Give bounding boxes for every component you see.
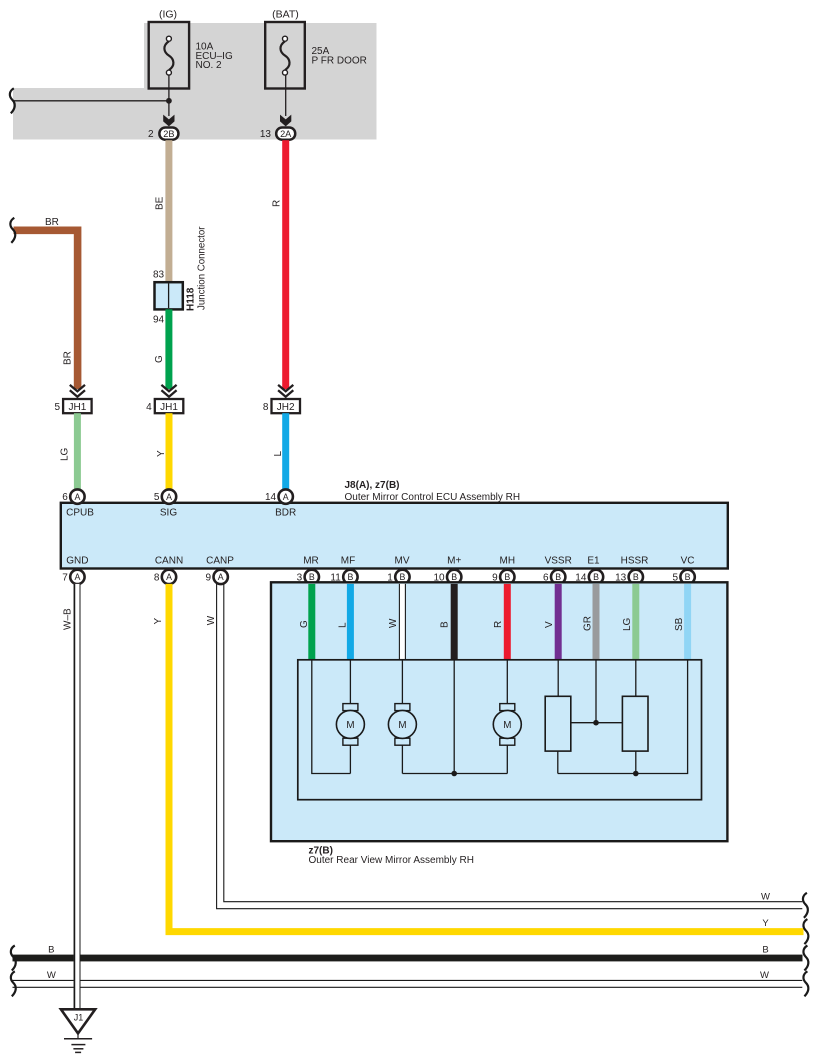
fuse 25A P FR DOOR F2 bbox=[265, 22, 305, 89]
svg-text:5: 5 bbox=[54, 402, 60, 413]
svg-text:R: R bbox=[271, 200, 282, 207]
svg-text:BR: BR bbox=[63, 351, 74, 365]
svg-text:A: A bbox=[218, 572, 224, 582]
svg-text:W: W bbox=[388, 618, 399, 628]
fuse block ground plane bbox=[13, 23, 377, 140]
wire G inner bbox=[312, 661, 351, 774]
svg-text:GR: GR bbox=[582, 616, 593, 631]
svg-text:9: 9 bbox=[206, 573, 212, 584]
fuse 10A ECU-IG F1 bbox=[149, 22, 189, 89]
svg-text:B: B bbox=[504, 572, 510, 582]
pin circle 1 B bbox=[387, 570, 409, 584]
pin circle 9 A bbox=[206, 570, 228, 584]
svg-text:G: G bbox=[154, 355, 165, 363]
mirror assembly box z7(B) bbox=[271, 582, 727, 841]
wire Y bbox=[166, 413, 173, 489]
svg-text:13: 13 bbox=[260, 129, 272, 140]
pin circle 6 B bbox=[543, 570, 565, 584]
actuator rect 1 bbox=[545, 696, 571, 751]
pin circle 14 B bbox=[575, 570, 603, 584]
svg-text:M: M bbox=[503, 720, 511, 731]
wire fuse BAT to connector 2A bbox=[285, 75, 287, 116]
wire SB into assembly bbox=[684, 584, 691, 661]
svg-text:HSSR: HSSR bbox=[621, 556, 649, 567]
wire L inner bbox=[349, 661, 351, 704]
svg-text:2A: 2A bbox=[280, 129, 292, 139]
svg-text:JH1: JH1 bbox=[160, 402, 178, 413]
svg-text:6: 6 bbox=[62, 492, 68, 503]
svg-text:BR: BR bbox=[45, 217, 59, 228]
svg-text:Y: Y bbox=[156, 450, 167, 457]
svg-text:B: B bbox=[555, 572, 561, 582]
junction connector H118 bbox=[155, 282, 183, 309]
wire W bottom horizontal bbox=[13, 980, 803, 987]
wire SB inner bbox=[558, 661, 688, 774]
svg-text:GND: GND bbox=[66, 556, 88, 567]
svg-text:83: 83 bbox=[153, 270, 165, 281]
svg-text:B: B bbox=[309, 572, 315, 582]
wire LG into assembly bbox=[632, 584, 639, 661]
wire bus in fuse block bbox=[12, 100, 169, 102]
svg-text:M: M bbox=[398, 720, 406, 731]
svg-text:CANN: CANN bbox=[155, 556, 183, 567]
wire V into assembly bbox=[555, 584, 562, 661]
svg-text:A: A bbox=[166, 492, 172, 502]
connector JH2 bbox=[272, 399, 301, 413]
wire BE tan bbox=[165, 140, 172, 282]
break symbol W bottom left bbox=[11, 971, 16, 996]
wire B horizontal bbox=[13, 955, 803, 962]
connector oval 2B bbox=[159, 128, 178, 140]
wire GR into assembly bbox=[593, 584, 600, 661]
svg-text:W: W bbox=[47, 970, 56, 981]
svg-text:L: L bbox=[273, 451, 284, 457]
svg-text:Y: Y bbox=[153, 618, 164, 625]
svg-text:J1: J1 bbox=[74, 1013, 84, 1023]
svg-text:Y: Y bbox=[762, 918, 769, 929]
wire BR brown bbox=[14, 230, 78, 389]
wire V inner bbox=[557, 661, 559, 697]
pin circle 11 B bbox=[330, 570, 357, 584]
svg-text:G: G bbox=[299, 620, 310, 628]
svg-text:SB: SB bbox=[674, 617, 685, 631]
break symbol W bottom right bbox=[803, 971, 808, 996]
svg-text:VSSR: VSSR bbox=[545, 556, 572, 567]
svg-text:B: B bbox=[633, 572, 639, 582]
svg-text:B: B bbox=[762, 945, 768, 956]
break symbol B left bbox=[11, 946, 16, 971]
wire L bbox=[282, 413, 289, 489]
svg-text:JH1: JH1 bbox=[69, 402, 87, 413]
connector JH1 center bbox=[155, 399, 184, 413]
svg-text:B: B bbox=[347, 572, 353, 582]
arrow into JH1 center bbox=[161, 385, 176, 397]
wire G green bbox=[165, 309, 172, 389]
svg-text:A: A bbox=[166, 572, 172, 582]
svg-text:Outer Rear View Mirror Assembl: Outer Rear View Mirror Assembly RH bbox=[309, 855, 474, 866]
break symbol BR left bbox=[10, 218, 15, 243]
break symbol bus left bbox=[10, 88, 15, 113]
pin circle 6 A bbox=[62, 489, 84, 503]
break symbol B right bbox=[803, 946, 808, 971]
svg-text:A: A bbox=[74, 572, 80, 582]
svg-text:M+: M+ bbox=[447, 556, 461, 567]
svg-text:7: 7 bbox=[62, 573, 68, 584]
svg-text:CPUB: CPUB bbox=[66, 508, 94, 519]
ECU box J8(A) z7(B) bbox=[61, 503, 728, 569]
svg-text:14: 14 bbox=[265, 492, 277, 503]
motor M3 bbox=[493, 704, 521, 746]
wire W inner bbox=[401, 661, 403, 704]
wire GR inner bbox=[571, 661, 622, 723]
wire R into assembly bbox=[504, 584, 511, 661]
svg-text:V: V bbox=[544, 621, 555, 628]
svg-text:A: A bbox=[283, 492, 289, 502]
svg-text:MV: MV bbox=[395, 556, 410, 567]
svg-text:(BAT): (BAT) bbox=[272, 9, 299, 21]
svg-text:2: 2 bbox=[148, 129, 154, 140]
svg-text:B: B bbox=[48, 945, 54, 956]
svg-text:B: B bbox=[451, 572, 457, 582]
svg-text:W: W bbox=[760, 970, 769, 981]
wire fuse IG to connector 2B bbox=[168, 75, 170, 116]
ground J1 bbox=[61, 1009, 95, 1052]
svg-text:94: 94 bbox=[153, 315, 165, 326]
break symbol W right bbox=[803, 893, 808, 918]
connector oval 2A bbox=[276, 128, 295, 140]
svg-text:VC: VC bbox=[681, 556, 695, 567]
wire B into assembly bbox=[451, 584, 458, 661]
svg-text:BDR: BDR bbox=[275, 508, 296, 519]
junction dot B bbox=[451, 771, 457, 777]
svg-text:LG: LG bbox=[59, 447, 70, 461]
svg-text:4: 4 bbox=[146, 402, 152, 413]
svg-text:E1: E1 bbox=[587, 556, 600, 567]
svg-text:B: B bbox=[685, 572, 691, 582]
pin circle 8 A bbox=[154, 570, 176, 584]
pin circle 13 B bbox=[615, 570, 643, 584]
svg-text:5: 5 bbox=[154, 492, 160, 503]
svg-text:R: R bbox=[493, 621, 504, 628]
svg-text:MH: MH bbox=[500, 556, 516, 567]
svg-text:MF: MF bbox=[341, 556, 355, 567]
svg-text:L: L bbox=[338, 622, 349, 628]
pin circle 9 B bbox=[492, 570, 514, 584]
break symbol Y right bbox=[803, 919, 808, 944]
inner circuit rect bbox=[298, 660, 702, 800]
svg-text:B: B bbox=[593, 572, 599, 582]
wire R inner bbox=[506, 661, 508, 704]
motor M2 bbox=[388, 704, 416, 746]
wire LG bbox=[74, 413, 81, 489]
svg-text:8: 8 bbox=[263, 402, 269, 413]
svg-text:MR: MR bbox=[303, 556, 319, 567]
svg-text:J8(A), z7(B): J8(A), z7(B) bbox=[345, 480, 400, 491]
wire B inner bbox=[402, 661, 507, 774]
actuator rect 2 bbox=[622, 696, 648, 751]
svg-text:Junction Connector: Junction Connector bbox=[196, 226, 207, 310]
svg-text:LG: LG bbox=[622, 617, 633, 631]
connector arrow into 2A bbox=[280, 115, 291, 127]
connector arrow into 2B bbox=[163, 115, 174, 127]
svg-text:H118: H118 bbox=[185, 287, 196, 311]
svg-text:NO. 2: NO. 2 bbox=[196, 60, 223, 71]
svg-text:B: B bbox=[399, 572, 405, 582]
motor M1 bbox=[336, 704, 364, 746]
svg-text:8: 8 bbox=[154, 573, 160, 584]
wire W-B from GND to ground bbox=[74, 584, 81, 1009]
svg-text:W: W bbox=[206, 615, 217, 625]
svg-text:2B: 2B bbox=[163, 129, 174, 139]
junction dot SB bbox=[633, 771, 639, 777]
wire W into assembly bbox=[399, 584, 405, 661]
svg-text:BE: BE bbox=[155, 196, 166, 210]
pin circle 14 A bbox=[265, 489, 293, 503]
arrow into JH2 bbox=[278, 385, 293, 397]
pin circle 7 A bbox=[62, 570, 84, 584]
pin circle 5 B bbox=[672, 570, 694, 584]
svg-text:(IG): (IG) bbox=[159, 9, 177, 21]
svg-text:B: B bbox=[439, 621, 450, 628]
arrow into JH1 left bbox=[70, 385, 85, 397]
svg-text:W–B: W–B bbox=[62, 608, 73, 630]
wire LG inner bbox=[635, 661, 637, 697]
svg-text:SIG: SIG bbox=[160, 508, 177, 519]
svg-text:CANP: CANP bbox=[206, 556, 234, 567]
svg-text:P FR DOOR: P FR DOOR bbox=[312, 55, 367, 66]
wire L into assembly bbox=[347, 584, 354, 661]
pin circle 10 B bbox=[433, 570, 461, 584]
svg-text:Outer Mirror Control ECU Assem: Outer Mirror Control ECU Assembly RH bbox=[345, 492, 521, 503]
svg-text:M: M bbox=[346, 720, 354, 731]
junction dot IG bbox=[166, 98, 172, 104]
wire motor1 bottom stem bbox=[349, 745, 351, 774]
wire W from CANP to right bbox=[217, 584, 803, 909]
pin circle 5 A bbox=[154, 489, 176, 503]
svg-text:JH2: JH2 bbox=[277, 402, 295, 413]
pin circle 3 B bbox=[297, 570, 319, 584]
wire Y from CANN to right bbox=[169, 584, 804, 932]
svg-text:A: A bbox=[74, 492, 80, 502]
wire G into assembly bbox=[308, 584, 315, 661]
wire R red top bbox=[282, 140, 289, 389]
junction dot GR bbox=[593, 720, 599, 726]
connector JH1 left bbox=[63, 399, 92, 413]
svg-text:W: W bbox=[761, 891, 770, 902]
